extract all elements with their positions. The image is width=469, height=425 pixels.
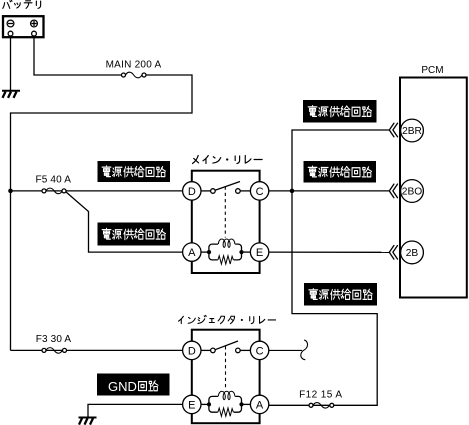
- connector chevrons 2BR: [389, 123, 397, 137]
- label メイン・リレー (main relay): [192, 155, 262, 163]
- svg-text:E: E: [188, 399, 195, 411]
- relay main: coil with resistor: [207, 239, 244, 264]
- wire branch up to 2BR: [292, 130, 389, 191]
- label バッテリ (battery): [3, 0, 41, 8]
- battery minus terminal symbol: [7, 20, 14, 27]
- svg-text:A: A: [188, 247, 196, 259]
- svg-text:C: C: [256, 345, 264, 357]
- label box 電源供給回路 (injector feed): [304, 283, 377, 306]
- relay injector: actuator dashed link: [225, 346, 227, 389]
- connector chevrons 2B: [389, 246, 397, 260]
- wire branch down to injector feed: [269, 191, 377, 405]
- relay injector: coil stubs E-A: [201, 403, 208, 405]
- PCM pin 2B: [401, 241, 424, 264]
- junction bus/F5: [8, 189, 13, 194]
- wire F5 branch diagonal down to relay A row: [66, 192, 183, 252]
- wire relay E to PCM 2B: [269, 251, 390, 253]
- svg-text:2BR: 2BR: [402, 126, 422, 137]
- wire F3 row: bus to injector D: [11, 349, 183, 351]
- relay injector: switch contact right: [236, 348, 241, 353]
- svg-text:PCM: PCM: [421, 65, 443, 76]
- svg-text:F5 40 A: F5 40 A: [36, 174, 72, 185]
- relay injector: pin C: [250, 341, 268, 359]
- svg-text:2B: 2B: [406, 248, 419, 259]
- ground (battery): [2, 91, 20, 98]
- svg-text:A: A: [256, 399, 264, 411]
- wire battery negative to ground: [10, 37, 12, 90]
- battery plus terminal symbol: [31, 20, 38, 27]
- junction C row: [290, 189, 295, 194]
- svg-text:2BO: 2BO: [402, 187, 422, 198]
- wire injector E to ground: [88, 404, 183, 416]
- connector chevrons 2BO: [389, 184, 397, 198]
- harness continuation squiggle: [301, 340, 308, 360]
- relay main: pin A: [183, 243, 201, 261]
- relay main: coil stubs A-E: [201, 251, 208, 253]
- wire relay C to PCM 2BO: [269, 190, 390, 192]
- PCM pin 2BO: [401, 180, 424, 203]
- ground (injector relay): [79, 418, 97, 425]
- svg-text:F3 30 A: F3 30 A: [36, 334, 72, 345]
- label box 電源供給回路 (D row): [98, 161, 171, 182]
- svg-text:D: D: [188, 345, 196, 357]
- relay injector: pin A: [250, 395, 268, 413]
- PCM pin 2BR: [401, 119, 424, 142]
- svg-text:C: C: [256, 186, 264, 198]
- wire injector C stub to harness break: [269, 349, 302, 351]
- relay main: pin E: [250, 243, 268, 261]
- relay injector: pin D: [183, 341, 201, 359]
- relay main: switch contact right: [236, 189, 241, 194]
- svg-text:D: D: [188, 186, 196, 198]
- wire F5 row: bus to relay D: [11, 190, 183, 192]
- relay main: pin C: [250, 182, 268, 200]
- label インジェクタ・リレー (injector relay): [179, 315, 276, 323]
- battery positive post: [32, 31, 37, 36]
- fuse MAIN 200 A: [106, 60, 162, 78]
- wire MAIN fuse to right drop: [11, 75, 193, 350]
- PCM box: [400, 78, 467, 298]
- fuse F3 30 A: [36, 334, 72, 353]
- relay injector: body: [192, 330, 260, 424]
- relay injector: switch blade: [201, 349, 211, 351]
- battery negative post: [8, 31, 13, 36]
- relay main: body: [192, 171, 260, 273]
- label box 電源供給回路 (2BR row): [303, 100, 377, 123]
- relay main: pin D: [183, 182, 201, 200]
- relay injector: coil with resistor: [207, 391, 244, 416]
- relay main: actuator dashed link: [224, 186, 226, 237]
- relay main: switch contact left: [211, 189, 216, 194]
- svg-text:E: E: [256, 247, 263, 259]
- battery BT box: [3, 16, 44, 37]
- label box 電源供給回路 (2BO row): [304, 161, 377, 183]
- fuse F5 40 A: [36, 174, 72, 193]
- svg-text:GND: GND: [108, 379, 137, 394]
- relay injector: switch contact left: [211, 348, 216, 353]
- label box GND回路: [97, 374, 170, 396]
- svg-text:MAIN 200 A: MAIN 200 A: [106, 60, 162, 71]
- svg-text:F12 15 A: F12 15 A: [299, 390, 342, 401]
- label box 電源供給回路 (A row): [98, 223, 171, 246]
- wire battery positive to MAIN fuse: [34, 37, 124, 75]
- relay injector: pin E: [183, 395, 201, 413]
- fuse F12 15 A: [299, 390, 342, 409]
- relay main: switch blade: [201, 190, 211, 192]
